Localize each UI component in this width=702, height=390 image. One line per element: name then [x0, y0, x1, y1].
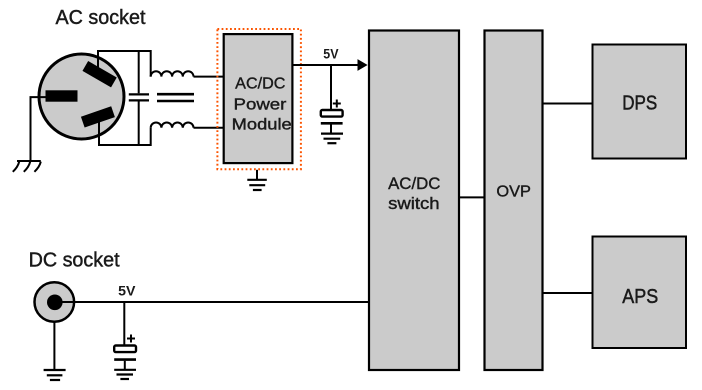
wire X1 top lead [138, 51, 140, 93]
svg-text:APS: APS [622, 286, 658, 308]
block DPS [593, 45, 687, 159]
capacitor C1 body [321, 110, 343, 117]
svg-text:DC socket: DC socket [29, 249, 120, 271]
svg-text:switch: switch [388, 195, 440, 213]
block AC/DC switch [369, 31, 459, 371]
ground symbol under DC socket [44, 370, 66, 380]
DC socket body [35, 282, 75, 322]
wire C1 to ground [330, 125, 332, 133]
svg-text:5V: 5V [323, 46, 339, 62]
capacitor C1 bottom plate [321, 122, 343, 125]
wire OVP to APS [544, 292, 593, 294]
wire L2 to module [194, 127, 224, 129]
capacitor X2 plates [157, 94, 194, 101]
capacitor C2 body [114, 346, 136, 353]
capacitor C2 polarized plus [127, 335, 135, 343]
label AC/DC switch [388, 175, 440, 213]
DC socket center pin [47, 295, 63, 311]
arrowhead into AC/DC switch [358, 59, 368, 71]
AC socket body [39, 54, 124, 139]
earth ground symbol [13, 161, 41, 172]
block OVP [485, 31, 543, 371]
wire 5V junction down to capacitor [330, 65, 332, 110]
svg-text:DPS: DPS [622, 92, 657, 114]
svg-text:Module: Module [232, 116, 292, 133]
wire X1 bottom lead [138, 102, 140, 146]
capacitor C1 polarized plus [333, 100, 341, 108]
wire switch to OVP [459, 196, 485, 198]
svg-text:Power: Power [234, 96, 288, 113]
inductor L1 top choke [151, 71, 194, 76]
wire module ground stem [256, 170, 258, 179]
capacitor C2 bottom plate [114, 358, 136, 361]
wire earth from socket [31, 97, 46, 160]
svg-text:OVP: OVP [496, 184, 531, 201]
wire DC junction down to capacitor [123, 302, 125, 346]
svg-text:AC/DC: AC/DC [388, 175, 440, 193]
AC socket top prong [82, 61, 116, 87]
AC socket left prong [46, 90, 78, 101]
svg-text:5V: 5V [118, 282, 136, 298]
wire AC live top [98, 51, 151, 77]
inductor L2 bottom choke [151, 122, 194, 127]
block APS [593, 237, 687, 349]
wire 5V from module to switch [294, 64, 359, 66]
wire OVP to DPS [544, 103, 593, 105]
svg-text:AC/DC: AC/DC [235, 75, 285, 92]
wire L1 to module [194, 76, 224, 78]
label AC/DC Power Module [232, 75, 292, 133]
wire AC neutral bottom [99, 114, 151, 145]
wire C2 to ground [124, 361, 126, 369]
ground symbol under module [247, 180, 266, 190]
dashed highlight box around power module [217, 29, 301, 169]
block AC/DC Power Module [224, 34, 293, 163]
ground symbol under C1 [321, 134, 343, 144]
AC socket bottom prong [81, 106, 115, 127]
svg-text:AC socket: AC socket [56, 7, 146, 29]
ground symbol under C2 [114, 370, 136, 379]
wire DC socket to ground [53, 321, 55, 369]
wire DC 5V to switch [58, 301, 368, 303]
capacitor X1 plates [129, 94, 149, 100]
